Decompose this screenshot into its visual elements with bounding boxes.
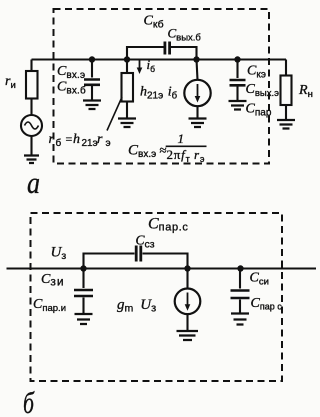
ground (output capacitor)	[229, 101, 247, 110]
wire: bridge C_сз	[84, 254, 135, 269]
wire	[30, 99, 32, 116]
wire	[91, 60, 93, 78]
wire	[82, 298, 84, 314]
wire	[186, 314, 188, 331]
wire: main horizontal rail of circuit a	[32, 58, 287, 60]
wire: gate capacitor branch	[82, 269, 84, 289]
wire: to load	[285, 60, 287, 76]
wire	[236, 60, 238, 79]
ground (input capacitor)	[83, 101, 101, 110]
wire: feedback bridge C_кб	[127, 47, 164, 60]
node B (base resistor top)	[124, 56, 130, 62]
wire	[30, 136, 32, 155]
wire	[236, 87, 238, 101]
resistor R_н	[281, 76, 292, 106]
dashed boundary box of circuit a	[54, 9, 270, 164]
ground (base resistor)	[118, 119, 136, 128]
ground (gate capacitor)	[75, 314, 93, 324]
wire	[171, 47, 197, 60]
wire	[91, 86, 93, 100]
capacitor C_вх.э / C_вх.б	[84, 80, 100, 85]
svg-text:б: б	[23, 385, 35, 417]
wire	[126, 102, 128, 118]
wire	[186, 269, 188, 289]
wire	[196, 106, 198, 117]
current source g_m U_з	[175, 289, 201, 315]
node G (drain capacitor)	[237, 265, 243, 271]
wire	[285, 105, 287, 119]
leader line to r_б label	[107, 97, 122, 131]
current source h21э i_б	[184, 80, 210, 106]
ground (load)	[277, 120, 295, 129]
node D (output)	[234, 56, 240, 62]
dashed boundary box of circuit b	[31, 213, 283, 381]
ground (source branch)	[24, 156, 39, 164]
wire	[197, 60, 198, 80]
svg-text:Cзи: Cзи	[41, 272, 65, 289]
node E (gate)	[80, 265, 86, 271]
AC source generator	[21, 115, 42, 136]
wire: source branch vertical	[30, 60, 32, 72]
svg-text:а: а	[27, 165, 40, 200]
capacitor C_сз plates	[136, 246, 141, 262]
wire	[126, 60, 128, 74]
resistor r_и	[26, 71, 38, 99]
ground (drain capacitor)	[231, 314, 249, 325]
current arrow i_б	[139, 61, 141, 70]
wire	[239, 300, 241, 313]
wire	[239, 269, 241, 289]
capacitor C_кб / C_вых.б plates	[165, 42, 170, 55]
capacitor C_зи / C_пар.и	[74, 290, 93, 296]
capacitor C_кэ / C_вых.э / C_пар	[230, 80, 246, 85]
ground (current source b)	[177, 331, 199, 340]
wire: main horizontal rail of circuit b	[7, 267, 317, 269]
svg-text:1: 1	[178, 131, 185, 146]
ground (current source)	[189, 119, 207, 128]
node C (collector current source top)	[193, 56, 199, 62]
wire	[143, 254, 188, 269]
resistor r_б	[122, 73, 134, 102]
capacitor C_си / C_пар.с	[231, 291, 250, 299]
node F (drain)	[184, 265, 190, 271]
node A (input)	[89, 56, 95, 62]
